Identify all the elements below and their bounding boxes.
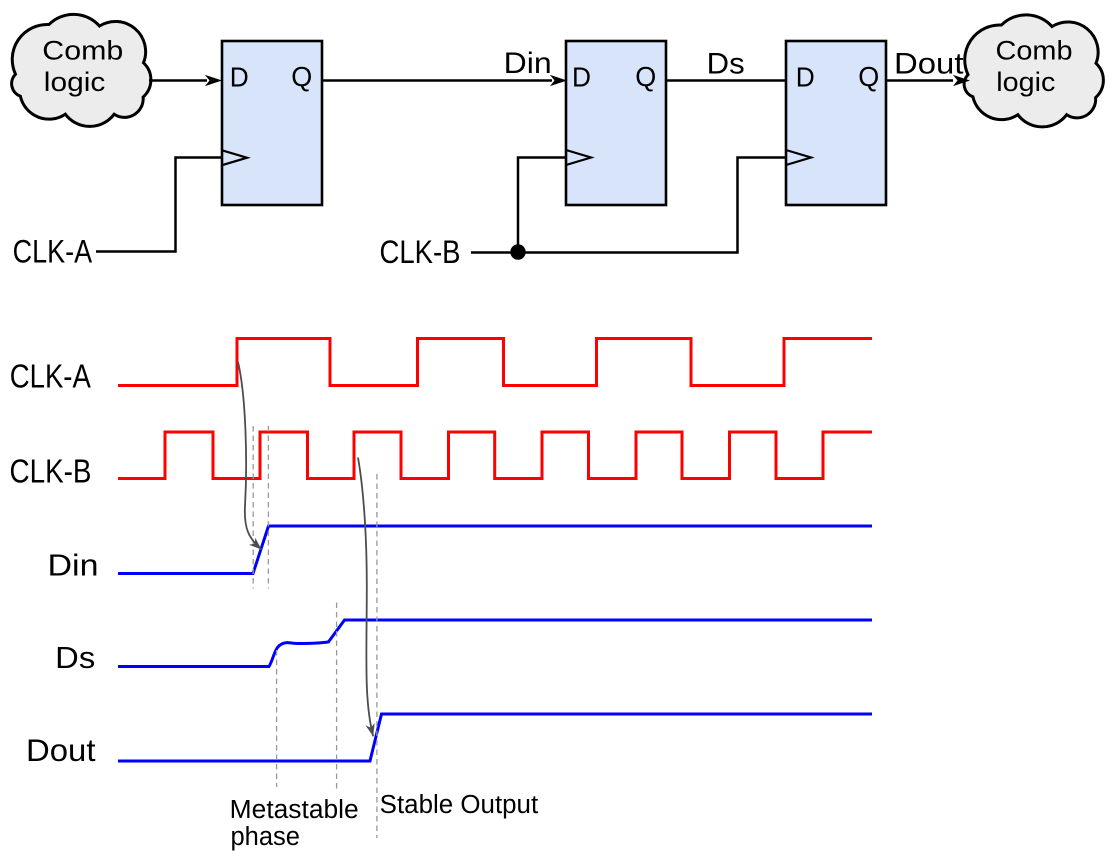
svg-text:Q: Q bbox=[291, 61, 312, 92]
svg-text:Q: Q bbox=[635, 61, 656, 92]
Ds waveform trace (metastable) bbox=[118, 620, 872, 667]
dashed guide metastable phase left bbox=[276, 650, 278, 787]
svg-text:Dout: Dout bbox=[26, 732, 96, 768]
svg-text:logic: logic bbox=[996, 67, 1055, 97]
svg-text:Q: Q bbox=[858, 61, 879, 92]
svg-text:phase: phase bbox=[231, 823, 300, 851]
arrowhead into FF2.D bbox=[550, 75, 567, 86]
cloud left "Comb logic" bbox=[12, 14, 151, 126]
svg-text:CLK-A: CLK-A bbox=[13, 234, 93, 270]
wire CLK-B branch to FF2 clock bbox=[518, 158, 565, 253]
svg-text:CLK-A: CLK-A bbox=[10, 358, 91, 395]
flip-flop FF3 box bbox=[786, 41, 886, 205]
svg-text:Ds: Ds bbox=[55, 640, 95, 675]
FF1 clock triangle bbox=[222, 150, 247, 165]
CLK-A waveform trace bbox=[118, 339, 872, 386]
svg-text:CLK-B: CLK-B bbox=[10, 453, 92, 490]
svg-text:D: D bbox=[572, 62, 591, 93]
FF2 clock triangle bbox=[566, 150, 591, 165]
wire FF2.Q to FF3.D (net Ds) bbox=[666, 79, 787, 82]
svg-text:CLK-B: CLK-B bbox=[380, 234, 461, 270]
svg-text:Comb: Comb bbox=[42, 36, 123, 66]
flip-flop FF2 box bbox=[566, 41, 666, 205]
wire cloud-left to FF1.D bbox=[149, 79, 207, 82]
arrowhead into FF1.D bbox=[205, 75, 222, 86]
wire CLK-B trunk to FF3 clock bbox=[471, 158, 785, 253]
causality arrow CLK-A edge to Din bbox=[238, 362, 262, 550]
svg-text:Din: Din bbox=[48, 548, 99, 583]
Din waveform trace bbox=[118, 526, 872, 574]
svg-text:D: D bbox=[230, 62, 249, 93]
svg-text:D: D bbox=[796, 62, 815, 93]
svg-text:Din: Din bbox=[504, 47, 552, 80]
cloud right "Comb logic" bbox=[964, 15, 1103, 127]
Dout waveform trace bbox=[118, 714, 872, 761]
dashed guide stable output bbox=[376, 474, 378, 838]
svg-text:Stable Output: Stable Output bbox=[380, 791, 539, 819]
wire CLK-A to FF1 clock bbox=[96, 158, 221, 252]
svg-text:Dout: Dout bbox=[894, 48, 964, 81]
dashed guide metastable phase right bbox=[336, 603, 338, 791]
FF3 clock triangle bbox=[786, 150, 811, 165]
flip-flop FF1 box bbox=[222, 41, 322, 205]
wire FF1.Q to FF2.D (net Din) bbox=[322, 79, 552, 82]
junction dot on CLK-B net bbox=[510, 244, 525, 259]
svg-text:Metastable: Metastable bbox=[230, 796, 359, 824]
arrowhead into cloud-right bbox=[953, 75, 970, 86]
wire FF3.Q to cloud-right (net Dout) bbox=[886, 79, 953, 82]
dashed guide at Din transition end bbox=[267, 426, 269, 589]
svg-text:Comb: Comb bbox=[996, 36, 1073, 66]
CLK-B waveform trace bbox=[118, 432, 872, 479]
dashed guide at Din transition start bbox=[252, 426, 254, 589]
svg-text:logic: logic bbox=[44, 67, 106, 97]
svg-text:Ds: Ds bbox=[707, 48, 745, 81]
causality arrow CLK-B edge to Dout bbox=[358, 458, 373, 737]
